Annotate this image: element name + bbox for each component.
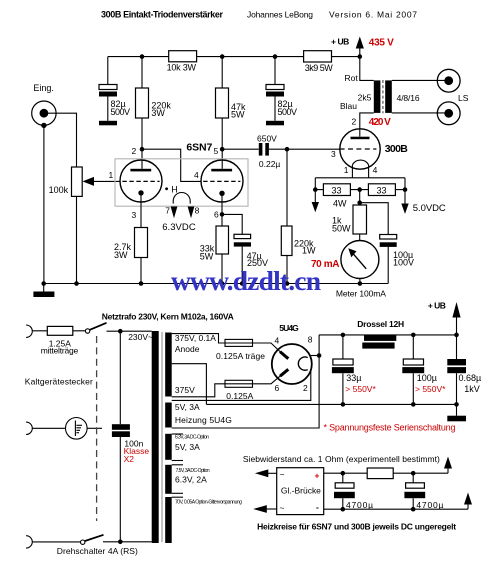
- svg-text:2: 2: [132, 146, 137, 156]
- svg-text:300B Eintakt-Triodenverstärker: 300B Eintakt-Triodenverstärker: [101, 10, 223, 20]
- wire hum pot left: [315, 189, 323, 191]
- wire plate of right triode: [221, 118, 223, 169]
- svg-text:4700µ: 4700µ: [346, 500, 373, 510]
- resistor 10k 3W: [167, 51, 197, 73]
- wire coupling left plate to right grid: [142, 149, 202, 181]
- heater symbol H with arc: [165, 185, 194, 219]
- svg-text:Netztrafo 230V, Kern M102a, 16: Netztrafo 230V, Kern M102a, 160VA: [102, 312, 234, 322]
- wire switch to primary: [107, 330, 152, 332]
- node right hum node: [403, 187, 408, 192]
- ground symbol PSU: [447, 404, 466, 421]
- wire 300B filament pin4: [368, 165, 370, 178]
- wire bridge - output rail: [324, 508, 468, 510]
- wire to 47u cap: [222, 214, 242, 234]
- svg-text:Version 6. Mai 2007: Version 6. Mai 2007: [329, 10, 417, 20]
- tube 300B: [340, 129, 381, 169]
- svg-text:100k: 100k: [49, 185, 69, 195]
- svg-text:10k 3W: 10k 3W: [167, 63, 197, 73]
- resistor 33k 5W: [200, 226, 229, 262]
- meter 100mA: [341, 234, 379, 284]
- wire filament rail: [315, 177, 405, 179]
- svg-text:435 V: 435 V: [369, 38, 394, 49]
- svg-text:* Spannungsfeste Serienschaltu: * Spannungsfeste Serienschaltung: [324, 422, 456, 432]
- wire pin8 down to 5V winding bottom: [172, 356, 319, 429]
- svg-text:Meter 100mA: Meter 100mA: [336, 289, 386, 299]
- wire pin 8 to B+ node: [311, 355, 319, 357]
- mains prong neutral: [26, 536, 32, 548]
- svg-text:100V: 100V: [393, 258, 414, 268]
- node dots B- rail: [341, 402, 346, 407]
- svg-text:4: 4: [275, 336, 280, 346]
- svg-text:0.125A: 0.125A: [226, 391, 253, 401]
- capacitor 100n X2 across mains: [112, 331, 149, 542]
- wire fuse2 to pin 6 anode: [253, 376, 281, 384]
- mains prong earth: [26, 422, 32, 434]
- svg-text:> 550V*: > 550V*: [415, 384, 446, 394]
- svg-text:5U4G: 5U4G: [279, 323, 299, 333]
- svg-text:6: 6: [214, 210, 219, 220]
- svg-text:3W: 3W: [151, 108, 165, 118]
- svg-text:1W: 1W: [302, 246, 316, 256]
- svg-text:3: 3: [331, 149, 336, 159]
- transformer 6.3V winding: [165, 465, 172, 494]
- transformer mains core: [161, 332, 163, 542]
- fuse 0.125A: [225, 380, 254, 401]
- wire switch to primary bottom: [103, 541, 152, 543]
- node 1k top junction: [357, 200, 362, 205]
- switch mains contact: [85, 323, 106, 333]
- svg-text:0.125A träge: 0.125A träge: [216, 351, 265, 361]
- capacitor 4700u #1: [334, 473, 373, 510]
- transformer 5V heater 5U4G winding: [165, 403, 172, 428]
- svg-text:+ UB: + UB: [331, 37, 349, 47]
- node pin2 junction: [140, 147, 145, 152]
- transformer 5V 3A winding: [165, 434, 172, 460]
- node left hum node: [313, 187, 318, 192]
- svg-text:Siebwiderstand ca. 1 Ohm (expe: Siebwiderstand ca. 1 Ohm (experimentell …: [243, 454, 440, 464]
- svg-text:5W: 5W: [200, 252, 214, 262]
- wire HV center tap to B-: [172, 364, 207, 405]
- resistor 2.7k 3W: [114, 228, 148, 261]
- capacitor 47u 250V: [234, 234, 268, 283]
- svg-text:1: 1: [344, 165, 349, 175]
- svg-text:500V: 500V: [278, 107, 298, 117]
- svg-text:6.3V, 2A: 6.3V, 2A: [175, 474, 207, 484]
- wire HV bottom tap to fuse2: [172, 384, 225, 397]
- capacitor 0.22u 650V: [257, 134, 280, 170]
- svg-text:+: +: [315, 471, 320, 481]
- svg-text:100µ: 100µ: [417, 373, 437, 383]
- svg-text:33µ: 33µ: [346, 373, 361, 383]
- svg-text:4700µ: 4700µ: [416, 500, 443, 510]
- wire input to pot top: [44, 113, 77, 167]
- bridge rectifier Gl.-Bruecke: [277, 468, 324, 515]
- capacitor 4700u #2: [404, 473, 443, 510]
- tube 6SN7 right triode: [201, 160, 243, 202]
- choke Drossel 12H: [357, 319, 404, 349]
- svg-text:6: 6: [275, 383, 280, 393]
- svg-text:8: 8: [195, 206, 200, 216]
- wire right cathode down: [221, 193, 223, 226]
- svg-text:5.0VDC: 5.0VDC: [413, 203, 446, 214]
- svg-text:420 V: 420 V: [369, 117, 391, 128]
- connector RCA speaker jack bottom: [437, 102, 460, 125]
- wire between 33 resistors: [350, 189, 368, 191]
- tube 6SN7 left triode: [120, 160, 162, 202]
- wire pin8 up to B+ rail: [318, 335, 320, 356]
- wire earth to chassis: [87, 427, 102, 429]
- wire 2.7k to ground rail: [140, 258, 142, 284]
- capacitor 82u 500V #1: [99, 57, 130, 121]
- ground bar below 82u #1: [99, 121, 117, 126]
- arrow down to 5V supply right: [401, 190, 408, 214]
- wire B+ top rail: [108, 56, 169, 58]
- svg-text:~: ~: [280, 470, 285, 480]
- svg-text:www.dzdlt.cn: www.dzdlt.cn: [171, 265, 321, 296]
- wire to bypass cap 100u: [360, 203, 389, 235]
- wire secondary bottom to speaker jack: [392, 112, 449, 114]
- earth symbol PE: [66, 418, 88, 440]
- svg-text:4: 4: [194, 170, 199, 180]
- node dots on ground rail: [41, 281, 46, 286]
- transformer HV secondary winding: [165, 333, 172, 397]
- wire pin 2 to 5V winding top: [172, 370, 311, 400]
- svg-text:LS: LS: [458, 93, 469, 103]
- resistor Siebwiderstand 1 Ohm: [367, 468, 393, 479]
- fuse 1.25A mitteltraege: [41, 326, 79, 355]
- node pin5 junction: [220, 147, 225, 152]
- arrow up heater -: [464, 493, 472, 510]
- wire fuse to pin 4 anode: [253, 343, 281, 352]
- wire 300B filament pin1: [351, 165, 353, 178]
- svg-text:X2: X2: [124, 454, 135, 464]
- arrow AC input bottom: [253, 505, 276, 513]
- capacitor 100u 550V: [402, 335, 446, 405]
- node filament center: [357, 187, 362, 192]
- wire hum pot right: [395, 189, 405, 191]
- svg-text:8: 8: [308, 335, 313, 345]
- tube 6SN7 envelope: [115, 159, 248, 206]
- node grid junction 300B: [285, 147, 290, 152]
- svg-text:0.68µ: 0.68µ: [459, 373, 482, 383]
- svg-text:230V~: 230V~: [128, 332, 153, 342]
- svg-text:70V, 0.05A Option-Gittervorspa: 70V, 0.05A Option-Gittervorspannung: [175, 500, 242, 506]
- svg-text:Drossel 12H: Drossel 12H: [357, 319, 404, 329]
- fuse 0.125A traege: [216, 339, 265, 360]
- svg-text:2k5: 2k5: [358, 93, 372, 103]
- transformer output: wire from rail to Rot: [360, 57, 374, 81]
- svg-text:7: 7: [165, 206, 170, 216]
- node pin8 junction: [317, 353, 322, 358]
- wire filament left drop: [314, 178, 316, 190]
- capacitor 0.68u 1kV: [447, 335, 481, 405]
- node neutral junction: [118, 540, 123, 545]
- svg-text:50W: 50W: [332, 224, 351, 234]
- svg-text:Heizung 5U4G: Heizung 5U4G: [175, 415, 232, 425]
- ground bar below 82u #2: [266, 121, 284, 126]
- node dots B+ rail: [341, 333, 346, 338]
- resistor 47k 5W: [216, 57, 247, 120]
- wire bridge + output rail: [324, 472, 448, 474]
- svg-text:Blau: Blau: [340, 101, 357, 111]
- resistor 3k9 5W: [304, 51, 334, 73]
- svg-text:5V, 3A: 5V, 3A: [175, 402, 200, 412]
- wire plate of left triode: [141, 118, 143, 169]
- svg-text:33: 33: [332, 186, 342, 196]
- svg-text:5: 5: [214, 146, 219, 156]
- svg-text:mittelträge: mittelträge: [41, 346, 79, 356]
- svg-text:6.3VDC: 6.3VDC: [162, 222, 196, 233]
- wire left cathode down: [140, 193, 142, 228]
- tube 5U4G: [272, 344, 312, 384]
- resistor 220k 3W: [136, 57, 172, 118]
- svg-text:6SN7: 6SN7: [186, 142, 212, 154]
- mains prong live: [26, 325, 32, 337]
- wire B- rail: [206, 403, 456, 405]
- svg-text:~: ~: [280, 503, 285, 513]
- chassis dashed boundary: [96, 336, 98, 521]
- capacitor 100u 100V: [380, 235, 414, 284]
- wire wiper to grid pin1: [94, 180, 121, 182]
- capacitor 33u 550V: [332, 335, 377, 405]
- svg-text:3k9 5W: 3k9 5W: [305, 63, 334, 73]
- power +UB arrow PSU: [428, 300, 461, 335]
- node junction dots on top rail: [140, 54, 145, 59]
- svg-text:Rot: Rot: [345, 73, 359, 83]
- svg-text:Anode: Anode: [175, 344, 200, 354]
- svg-text:4W: 4W: [333, 199, 347, 209]
- svg-text:375V: 375V: [175, 385, 195, 395]
- connector RCA speaker jack top: [437, 69, 460, 92]
- wire Blau primary bottom to 300B anode: [360, 113, 374, 137]
- arrow AC input top: [255, 469, 277, 477]
- wire B+ rail: [319, 334, 456, 336]
- input connector Eing.: [32, 83, 56, 128]
- svg-text:6.3V, 3A DC-Option: 6.3V, 3A DC-Option: [175, 434, 209, 440]
- resistor 1k 50W: [332, 205, 367, 234]
- svg-text:33: 33: [377, 186, 387, 196]
- arrow up heater +: [444, 457, 452, 474]
- svg-text:4: 4: [373, 165, 378, 175]
- wire live to fuse: [32, 330, 85, 332]
- svg-text:0.22µ: 0.22µ: [259, 159, 281, 169]
- node live junction: [118, 329, 123, 334]
- svg-text:5V, 3A: 5V, 3A: [175, 442, 200, 452]
- wire pin5 to coupling cap: [222, 148, 259, 150]
- svg-text:3: 3: [132, 210, 137, 220]
- power +UB 435V arrow: [331, 37, 364, 57]
- svg-text:4/8/16: 4/8/16: [397, 93, 420, 103]
- svg-text:Eing.: Eing.: [33, 83, 54, 93]
- potentiometer 100k: [49, 167, 94, 196]
- svg-text:Heizkreise für 6SN7 und 300B j: Heizkreise für 6SN7 und 300B jeweils DC …: [257, 522, 456, 532]
- wire secondary top to speaker jack: [392, 79, 449, 81]
- svg-text:H: H: [171, 185, 178, 195]
- capacitor 82u 500V #2: [266, 57, 297, 121]
- resistor 33 right: [368, 184, 395, 196]
- transformer output primary winding 2k5: [374, 80, 381, 113]
- svg-text:650V: 650V: [257, 134, 277, 144]
- svg-text:-: -: [316, 502, 319, 512]
- wire filament right drop: [404, 178, 406, 190]
- wire amp ground rail: [44, 283, 389, 285]
- wire coupling cap to 300B grid: [269, 148, 340, 150]
- transformer mains primary winding: [152, 331, 159, 543]
- transformer 70V winding: [165, 497, 172, 543]
- svg-text:7.5V, 3A DC-Option: 7.5V, 3A DC-Option: [176, 468, 210, 474]
- svg-text:3W: 3W: [114, 250, 128, 260]
- svg-text:500V: 500V: [111, 107, 131, 117]
- wire input ground drop: [43, 125, 45, 283]
- svg-text:Drehschalter 4A (RS): Drehschalter 4A (RS): [57, 546, 138, 556]
- node cathode bypass junction: [220, 212, 225, 217]
- svg-text:1: 1: [109, 170, 114, 180]
- wire earth prong to PE symbol: [32, 427, 65, 429]
- switch Drehschalter: [81, 535, 104, 545]
- svg-text:5W: 5W: [231, 110, 245, 120]
- svg-text:+ UB: + UB: [428, 300, 446, 310]
- svg-text:Johannes LeBong: Johannes LeBong: [247, 10, 313, 20]
- transformer output core: [382, 80, 384, 113]
- node meter bottom: [358, 281, 363, 286]
- resistor 33 left: [323, 184, 350, 196]
- resistor 220k 1W grid leak: [281, 149, 316, 283]
- svg-text:> 550V*: > 550V*: [345, 384, 376, 394]
- node dots heater rail: [341, 471, 346, 476]
- wire neutral to switch: [32, 541, 80, 543]
- wire 33k to ground rail: [221, 254, 223, 284]
- ground symbol amp: [33, 284, 54, 298]
- tap stubs unused windings: [172, 434, 183, 497]
- transformer output secondary winding 4/8/16: [385, 80, 392, 113]
- wire center to 1k: [359, 190, 361, 205]
- svg-text:Kaltgerätestecker: Kaltgerätestecker: [25, 377, 93, 387]
- svg-text:375V, 0.1A: 375V, 0.1A: [175, 333, 216, 343]
- wire pot bottom: [76, 196, 78, 283]
- svg-text:Gl.-Brücke: Gl.-Brücke: [281, 485, 321, 495]
- arrow down to 5V supply left: [312, 190, 319, 213]
- node dots heater - rail: [341, 507, 346, 512]
- svg-text:2: 2: [303, 383, 308, 393]
- wire HV top tap to fuse: [172, 334, 225, 343]
- svg-text:300B: 300B: [385, 143, 408, 155]
- svg-text:2: 2: [352, 117, 357, 127]
- svg-text:1kV: 1kV: [464, 384, 480, 394]
